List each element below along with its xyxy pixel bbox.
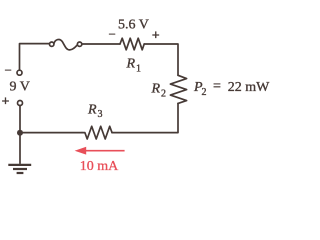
svg-text:−: − (5, 63, 12, 78)
svg-text:1: 1 (136, 64, 141, 75)
wire R3 to junction (20, 132, 82, 134)
switch terminal circles (50, 42, 54, 46)
battery terminal circle (positive) (18, 101, 23, 106)
node junction dot (17, 130, 23, 136)
svg-text:−: − (109, 26, 116, 41)
resistor R1 (120, 38, 144, 50)
resistor R3 (82, 126, 112, 139)
switch SW1 blade (54, 40, 78, 50)
svg-text:2: 2 (202, 87, 207, 98)
wire R2 to bottom-right corner to R3 (112, 103, 178, 132)
current arrow 10 mA (75, 147, 125, 155)
svg-text:R: R (87, 102, 97, 117)
wire battery to ground (19, 105, 21, 163)
svg-text:22 mW: 22 mW (228, 80, 270, 95)
svg-text:=: = (213, 79, 221, 94)
wire top-left corner to switch (20, 44, 50, 71)
wire switch to R1 (82, 43, 120, 45)
svg-text:10 mA: 10 mA (80, 159, 119, 174)
ground (8, 165, 31, 173)
svg-text:+: + (2, 95, 10, 110)
battery terminal circle (negative) (17, 70, 22, 75)
svg-text:R: R (126, 57, 136, 72)
svg-text:2: 2 (161, 88, 166, 99)
svg-text:9 V: 9 V (10, 79, 30, 94)
svg-text:5.6 V: 5.6 V (118, 18, 149, 33)
resistor R2 (170, 75, 186, 103)
svg-text:R: R (151, 81, 161, 96)
svg-text:3: 3 (98, 109, 103, 120)
svg-text:+: + (152, 28, 160, 43)
wire R1 to top-right corner down to R2 (144, 44, 178, 75)
